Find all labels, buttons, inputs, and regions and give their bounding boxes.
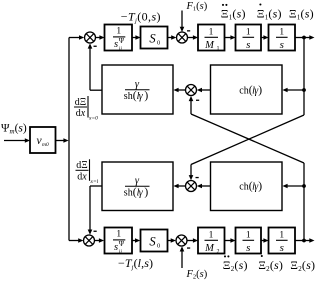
svg-text:ch: ch xyxy=(239,181,248,192)
svg-text:sh: sh xyxy=(124,91,133,102)
svg-text:): ) xyxy=(258,180,262,192)
svg-text:1: 1 xyxy=(209,231,214,241)
svg-text:Ψ: Ψ xyxy=(119,240,125,248)
svg-text:x=l: x=l xyxy=(90,179,99,185)
svg-text:1: 1 xyxy=(116,230,121,240)
svg-text:1: 1 xyxy=(217,46,220,52)
svg-text:F1(s): F1(s) xyxy=(186,1,208,13)
svg-text:F2(s): F2(s) xyxy=(186,269,208,281)
svg-text:Ξ1(s): Ξ1(s) xyxy=(221,7,246,22)
svg-text:Ξ1(s): Ξ1(s) xyxy=(257,7,282,22)
svg-text:1: 1 xyxy=(279,28,284,38)
svg-text:dΞ: dΞ xyxy=(76,160,87,171)
svg-text:s: s xyxy=(280,39,284,51)
svg-text:dΞ: dΞ xyxy=(75,97,86,108)
svg-text:1: 1 xyxy=(279,231,284,241)
svg-text:Ξ1(s): Ξ1(s) xyxy=(289,7,314,22)
svg-text:Ξ2(s): Ξ2(s) xyxy=(290,258,315,273)
svg-text:ch: ch xyxy=(239,85,248,96)
svg-text:2: 2 xyxy=(217,249,220,255)
svg-text:1: 1 xyxy=(246,28,251,38)
svg-text:1: 1 xyxy=(116,27,121,37)
svg-text:s: s xyxy=(246,39,250,51)
svg-text:): ) xyxy=(144,187,148,199)
svg-text:ij: ij xyxy=(119,46,123,52)
svg-text:dx: dx xyxy=(76,108,86,119)
svg-text:s: s xyxy=(246,242,250,254)
svg-text:0: 0 xyxy=(157,242,160,249)
svg-text:s: s xyxy=(114,242,118,253)
svg-text:m0: m0 xyxy=(42,142,49,148)
svg-text:dx: dx xyxy=(77,172,87,183)
svg-text:Ξ2(s): Ξ2(s) xyxy=(258,258,283,273)
svg-text:0: 0 xyxy=(157,39,160,46)
svg-text:1: 1 xyxy=(246,231,251,241)
svg-text:Ψ: Ψ xyxy=(119,37,125,45)
svg-text:s: s xyxy=(280,242,284,254)
svg-text:s: s xyxy=(114,39,118,50)
svg-text:sh: sh xyxy=(124,188,133,199)
svg-text:Ξ2(s): Ξ2(s) xyxy=(223,258,248,273)
svg-text:M: M xyxy=(204,243,215,254)
svg-text:M: M xyxy=(204,40,215,51)
svg-text:): ) xyxy=(258,84,262,96)
svg-text:−Tj(l,s): −Tj(l,s) xyxy=(118,256,153,271)
svg-text:): ) xyxy=(144,90,148,102)
svg-text:S: S xyxy=(149,32,156,46)
svg-text:S: S xyxy=(149,235,156,249)
svg-text:x=0: x=0 xyxy=(88,116,98,122)
svg-text:Ψm(s): Ψm(s) xyxy=(1,123,27,136)
svg-text:1: 1 xyxy=(209,28,214,38)
svg-text:ij: ij xyxy=(119,249,123,255)
svg-text:−Tj(0,s): −Tj(0,s) xyxy=(121,9,161,24)
